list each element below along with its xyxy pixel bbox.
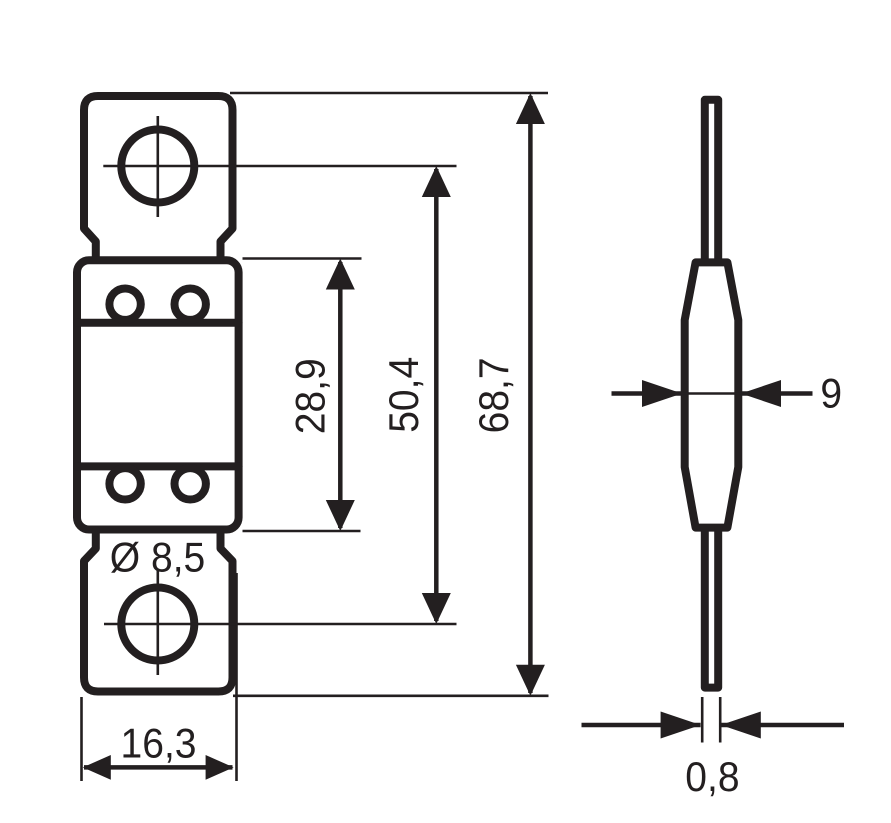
arrowhead 68,7 down [516,665,545,696]
bottom hole horizontal centerline [104,623,457,626]
arrowhead 16,3 right [206,755,234,780]
dim line 0,8 right segment [721,723,844,728]
fuse bottom mounting tab outline [84,531,233,692]
dim line 0,8 left segment [582,723,701,728]
svg-text:Ø 8,5: Ø 8,5 [110,533,206,581]
rivet circle lower-right [175,468,206,499]
side view bottom blade [705,528,718,688]
arrowhead 68,7 up [516,93,545,124]
side view top blade [705,100,718,262]
extension line 16,3 right [235,573,238,781]
9 dim line across bulge [682,392,741,395]
arrowhead 0,8 left [661,712,701,739]
bottom hole vertical centerline [157,569,160,676]
svg-text:50,4: 50,4 [380,357,428,433]
arrowhead 9 right [741,380,781,407]
dim line 16,3 [84,765,233,770]
extension line 0,8 left [701,697,704,743]
dim line 68,7 [528,96,533,693]
top hole horizontal centerline [103,165,456,168]
svg-text:68,7: 68,7 [470,357,518,433]
fuse top mounting tab outline [84,96,233,259]
dim line 50,4 [434,169,439,621]
extension line body bottom (28,9) [243,530,361,533]
extension line 0,8 right [719,697,722,743]
extension line top edge (68,7) [230,92,548,95]
fuse body rectangle [77,260,239,529]
body upper rivet line [77,319,239,327]
arrowhead 28,9 down [326,500,355,531]
arrowhead 50,4 down [422,593,451,624]
dim line 9 right segment [741,391,813,396]
rivet circle upper-left [109,289,140,320]
arrowhead 16,3 left [83,755,111,780]
arrowhead 50,4 up [422,166,451,197]
top hole vertical centerline [157,116,160,217]
side view fuse body bulge [685,262,739,527]
rivet circle lower-left [109,468,140,499]
rivet circle upper-right [175,289,206,320]
bottom mounting hole [121,588,194,661]
arrowhead 9 left [642,380,682,407]
svg-text:16,3: 16,3 [120,719,196,767]
extension line 16,3 left [80,697,83,781]
extension line body top (28,9) [243,257,362,260]
top mounting hole [121,130,194,203]
dim line 28,9 [338,262,343,528]
body lower rivet line [77,462,239,470]
svg-text:9: 9 [820,369,842,417]
extension line bottom edge (68,7) [233,694,549,697]
arrowhead 28,9 up [326,259,355,290]
dim line 9 left segment [612,391,683,396]
svg-text:0,8: 0,8 [685,753,739,801]
arrowhead 0,8 right [721,712,761,739]
svg-text:28,9: 28,9 [286,358,334,434]
